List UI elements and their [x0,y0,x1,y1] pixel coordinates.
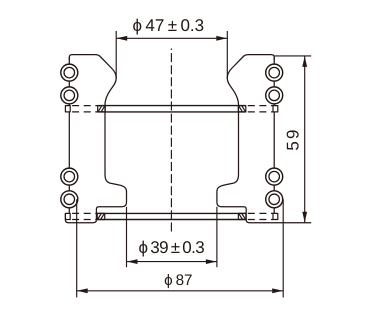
bottom flange left tab [65,213,70,219]
phi39 arrowheads [127,259,138,264]
right pin wall upper [273,57,275,105]
59 arrowheads [302,56,307,67]
hatch box bottom-right [238,213,246,219]
svg-text:59: 59 [284,127,303,150]
phi39 dimension line [127,261,217,263]
dimension phi47: extension lines [116,31,227,79]
svg-text:ϕ 47 ± 0.3: ϕ 47 ± 0.3 [132,16,204,35]
top flange hidden dashed lines left [70,105,98,107]
hatch box bottom-left [97,213,105,219]
right ear outline with chamfer [227,55,274,106]
top flange hidden dashed lines right [246,105,273,107]
top flange right tab [273,106,278,112]
phi47 dimension line [116,37,227,39]
bottom flange hidden dashed lines left [70,212,97,214]
dimension phi87: extension lines [77,199,284,297]
left ear outline with chamfer [69,55,116,106]
hatch box top-left [98,106,106,112]
phi87 arrowheads [77,288,88,293]
top flange solid lines [98,105,246,107]
left waist S-curve and skirt [65,175,126,223]
dimension 59: projection lines [274,56,311,223]
right body edge below top flange [238,106,240,175]
left pin wall upper [68,57,70,105]
bottom flange solid lines [97,212,246,214]
right pin wall lower [273,112,275,213]
pin circles right column [266,64,283,208]
phi87 dimension line [77,290,284,292]
bottom flange hidden dashed lines right [246,212,273,214]
pin circles left column [61,64,78,208]
centerline [170,49,172,232]
hatch box top-right [238,106,246,112]
right waist S-curve and skirt, lip extends as 59-projection [217,175,311,223]
dimension phi39: extension lines [127,207,217,267]
phi47 arrowheads [116,36,127,41]
bottom flange right tab [273,213,278,219]
left pin wall lower [68,112,70,213]
svg-text:ϕ 87: ϕ 87 [164,272,192,289]
top flange left tab [65,106,70,112]
left body edge below top flange [104,106,106,175]
59 dimension line [304,56,306,222]
svg-text:ϕ 39 ± 0.3: ϕ 39 ± 0.3 [138,238,204,257]
